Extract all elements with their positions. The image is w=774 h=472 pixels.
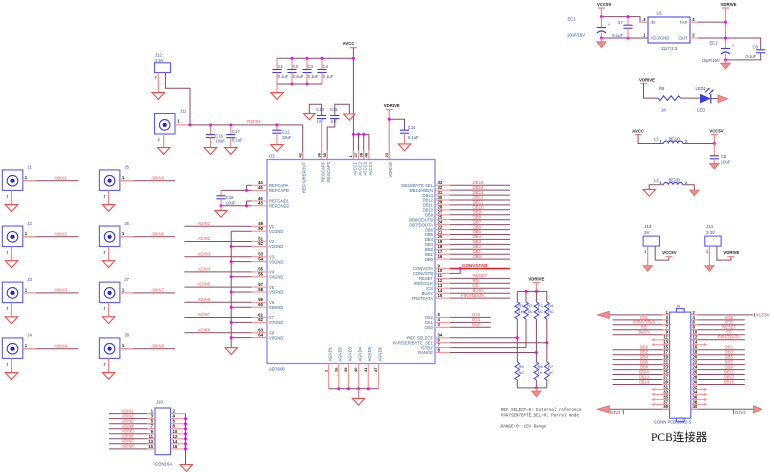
wire ADIN7 [120,292,175,294]
svg-text:EC2: EC2 [710,40,719,45]
resistor R3 [534,302,543,319]
svg-text:REFIN: REFIN [247,119,260,124]
svg-text:C5: C5 [721,154,727,159]
svg-text:VCC5V: VCC5V [662,250,676,255]
U1 pin4 stub [690,21,698,23]
wire /STBY net [450,347,526,349]
wire C14 branch [389,119,404,130]
ground DGND L2 [690,190,700,196]
svg-text:PAR/SER/BYTE_SEL=0: Parral mod: PAR/SER/BYTE_SEL=0: Parral mode [501,414,579,419]
pin 35 REGCAP2 labels [322,152,331,182]
pin 2 lead J3 [11,303,13,317]
power port VDRIVE out [721,2,737,8]
R6 bottom lead [535,380,537,388]
pin 38 AVCC3 labels [358,152,367,175]
pin 54 V3GND [252,261,268,263]
svg-text:R5: R5 [519,364,525,369]
wire VCC5V drop3 [713,135,715,144]
svg-text:47: 47 [373,367,378,372]
svg-text:42: 42 [297,152,302,157]
wire J9 pin4 OS0 [691,319,745,321]
junction top bus C2 [291,57,294,60]
resistor R7 [545,362,554,380]
pin 36 stub [321,150,323,160]
junction CONVSTAB node [459,267,462,270]
svg-text:OS0: OS0 [425,325,434,330]
svg-text:R4: R4 [548,303,554,308]
wire J9 pin25 DB10 [613,374,670,376]
svg-text:REF SELECT=0: External referen: REF SELECT=0: External reference [501,408,582,413]
pin 59 V6 [252,301,268,303]
junction C7 bottom [627,37,630,40]
J10 pin 6 stub [171,423,186,425]
BNC connector J6 [99,221,129,255]
R4 bottom lead [546,319,548,343]
svg-text:ADIN2: ADIN2 [198,236,211,241]
C2 top lead [291,58,293,69]
svg-text:AGND5: AGND5 [367,346,372,361]
pin 19 DB3 [435,243,450,245]
pin 46 REFGND1 [252,200,268,202]
wire DB15 [450,184,510,186]
J9 pin10 pin stub [691,334,698,336]
svg-text:62: 62 [258,317,263,322]
wire LED1 to DGND [711,98,719,100]
wire DB4 [450,238,510,240]
svg-text:U3: U3 [269,153,275,158]
R1 top lead [516,291,518,302]
svg-text:1uF: 1uF [316,119,324,124]
pin 1 stub J8 [120,348,133,350]
capacitor C1 [272,64,288,79]
R5 top lead [516,338,518,362]
J9 pin16 pin stub [691,349,698,351]
svg-text:54: 54 [258,256,263,261]
wire J9 pin21 DB6 [613,364,670,366]
pin 12 /RD/SCLK [435,282,450,284]
svg-text:J5: J5 [124,165,129,170]
svg-text:R3: R3 [538,303,544,308]
U1 pin2 stub [690,37,698,39]
wire ADIN6 at chip [184,301,251,303]
wire U1 gnd bus [601,37,648,39]
junction J10 gnd bus 4 [184,417,187,420]
pin 10 CONVSTB [435,272,450,274]
pin 2 lead J1 [11,190,13,204]
ground AGND J10 [180,465,192,472]
svg-text:NC: NC [538,309,544,314]
junction VGND bus node 6 [230,306,233,309]
ground AGND L2 [643,189,655,196]
wire L2 left [649,185,663,189]
pin 26 AGND2 [338,364,340,389]
C1 bottom lead [276,73,278,85]
svg-text:CONN PCB 20X2-S: CONN PCB 20X2-S [654,419,691,424]
pin 27 DB9 [435,214,450,216]
BNC connector J7 [99,277,129,311]
svg-text:REGCAP1: REGCAP1 [321,161,326,182]
capacitor C12 [272,130,292,140]
J10 pin 10 stub [171,433,186,435]
junction C18/REFGND node [220,204,223,207]
svg-text:C14: C14 [408,125,416,130]
wire ADIN6 [120,236,175,238]
junction VGND bus node 3 [230,260,233,263]
pin 2 lead J11 [163,134,165,147]
wire AVCC38 drop [363,134,365,159]
svg-text:LED1: LED1 [696,86,707,91]
svg-text:15: 15 [148,444,153,449]
svg-text:ADIN8: ADIN8 [151,343,164,348]
svg-text:ADIN1: ADIN1 [198,221,211,226]
svg-text:+: + [608,22,611,27]
wire J9 pin28 DB13 [691,379,745,381]
svg-text:C11: C11 [330,107,338,112]
wire ADIN2 to J10 [109,418,155,420]
pin 1 stub J1 [23,180,37,182]
pin 5 OS2 [435,316,450,318]
svg-text:DB14: DB14 [639,379,650,384]
junction VGND bus node 2 [230,245,233,248]
pin 3 OS0 [435,326,450,328]
BNC connector J5 [99,165,129,199]
svg-text:VCC5V: VCC5V [709,128,723,133]
pin 1 AVCC1 labels [348,155,357,176]
svg-text:V5GND: V5GND [269,290,283,295]
pin 18 DB2 [435,248,450,250]
pin 2 lead J5 [108,190,110,204]
pin 21 DB5 [435,234,450,236]
svg-text:NC: NC [548,309,554,314]
svg-text:2: 2 [7,251,9,255]
J9 pin11 pin stub [662,339,670,341]
J9 pin24 pin stub [691,369,698,371]
pin 37 AVCC2 labels [353,152,362,175]
pin 35 AGND3 [348,364,350,389]
svg-text:64: 64 [258,332,263,337]
J9 pin36 stub [691,398,706,400]
wire ADIN3 to J10 [109,423,155,425]
pin 35 stub [326,150,328,160]
C5 bottom lead [713,159,715,164]
junction C7 top [627,15,630,18]
wire RESET [450,277,510,279]
svg-text:1117-3.3: 1117-3.3 [661,46,678,51]
wire V2GND [231,245,251,247]
J10 pin 14 stub [171,443,186,445]
LED LED1 [696,86,714,112]
wire REF SELECT net [450,337,517,339]
junction J10 gnd bus 10 [184,432,187,435]
connector J9 body [670,312,691,418]
J10 pin 4 stub [171,418,186,420]
wire J9 pin1 [609,314,670,316]
J9 pin34 pin stub [691,393,698,395]
svg-text:CON16A: CON16A [155,461,172,466]
svg-text:C12: C12 [282,130,290,135]
ground AGND below chip [352,398,364,405]
wire FIRSTDATA [450,297,510,299]
ground DGND EC1 [597,42,607,48]
svg-text:ADIN6: ADIN6 [198,297,211,302]
svg-text:D3V3: D3V3 [735,410,746,415]
svg-text:10uF/16V: 10uF/16V [702,58,720,63]
svg-text:C2: C2 [293,64,299,69]
C14 lead [404,133,406,143]
svg-text:ADIN7: ADIN7 [151,288,164,293]
pin 9 CONVSTA [435,268,450,270]
pin 33 DB15/BYTE SEL [435,184,450,186]
junction AVCC bus 358.5 [357,133,360,136]
junction J10 gnd bus 16 [184,447,187,450]
svg-text:V4GND: V4GND [269,275,283,280]
svg-text:0.1uF: 0.1uF [323,74,334,79]
svg-text:ADIN5: ADIN5 [198,282,211,287]
pin 41 AGND5 [367,364,369,389]
wire C8 bottom wire [726,53,761,60]
capacitor C5 [710,154,731,165]
J9 pin33 stub [653,393,670,395]
J10 pin 9 stub [147,433,155,435]
pin 11 RESET [435,277,450,279]
svg-text:DB0: DB0 [473,254,482,259]
svg-text:2.5V: 2.5V [155,58,164,63]
R5 bottom lead [516,380,518,388]
ground AGND under J5 [102,205,114,212]
J10 pin 8 stub [171,428,186,430]
pin 61 V7 [252,317,268,319]
J9 pin3 pin stub [662,319,670,321]
svg-text:10uF: 10uF [226,200,236,205]
svg-text:PCB连接器: PCB连接器 [651,430,708,444]
svg-text:R7: R7 [548,364,554,369]
svg-text:1K: 1K [519,309,524,314]
J10 pin 1 stub [147,413,155,415]
pulldown gnd stem [535,388,537,391]
wire J9 pin39 D3V3 [609,408,670,410]
pin 60 V6GND [252,306,268,308]
wire RD [450,282,510,284]
pin 30 DB12 [435,199,450,201]
pin 4 OS1 [435,321,450,323]
svg-text:J3: J3 [27,277,32,282]
svg-text:OS0: OS0 [472,322,481,327]
wire REFGND1 net [247,200,252,202]
svg-text:ADIN3: ADIN3 [198,251,211,256]
junction VDRIVE/OUT [724,37,727,40]
wire TAP to VDRIVE [690,21,726,23]
svg-text:2: 2 [104,251,106,255]
pin 29 DB11 [435,204,450,206]
J9 pin19 pin stub [662,359,670,361]
pin 25 DB8/DOUTB [435,219,450,221]
capacitor EC2 [702,40,735,63]
svg-text:LED: LED [697,107,705,112]
connector J12 [155,63,171,73]
svg-text:26: 26 [333,367,338,372]
wire RANGE net [450,352,536,354]
wire DB5 [450,234,510,236]
svg-text:1: 1 [706,250,708,254]
junction R3/RANGE [535,351,538,354]
svg-text:0.1uF: 0.1uF [308,74,319,79]
wire ADIN1 to J10 [109,413,155,415]
wire pulldown bottom bus [517,387,547,389]
C16 lead2 [210,138,212,148]
wire DB1 [450,253,510,255]
wire R8 to LED1 [681,97,701,99]
wire C8 top wire [726,38,761,50]
svg-text:RANGE: RANGE [418,350,433,355]
regulator U1 1117-3.3 [648,17,690,43]
svg-text:2: 2 [685,181,687,185]
svg-text:0.1uF: 0.1uF [612,33,623,38]
ground AGND VGND bus [225,348,237,355]
svg-text:10uF: 10uF [721,159,731,164]
J9 pin34 stub [691,393,706,395]
pin 23 stub [388,150,390,160]
svg-text:C4: C4 [323,64,329,69]
wire V8GND [231,337,251,339]
svg-text:AGND1: AGND1 [328,346,333,361]
R7 top lead [546,343,548,362]
resistor R1 [515,302,524,319]
J9 pin1 pin stub [662,314,670,316]
R6 top lead [535,353,537,363]
J9 pin28 pin stub [691,379,698,381]
svg-text:35: 35 [343,367,348,372]
pin 45 REFCAPB [252,189,268,191]
svg-text:C8: C8 [753,44,759,49]
power port VCC5V at J13 [662,250,676,256]
wire J9 pin26 DB11 [691,374,745,376]
pin 13 /CS [435,287,450,289]
wire V6GND [231,306,251,308]
pin 2 lead J12 [157,73,159,93]
svg-text:1K: 1K [527,309,532,314]
op-amp U3 AD7606 body [267,160,435,364]
svg-text:2: 2 [104,362,106,366]
junction REFIN/C16 node [209,123,212,126]
wire DB2 [450,248,510,250]
svg-text:C17: C17 [232,129,240,134]
J9 pin36 pin stub [691,398,698,400]
C3 bottom lead [306,73,308,85]
ground AGND under J7 [102,317,114,324]
junction VDRIVE/TAP [724,21,727,24]
wire AVCC pin bus [353,133,369,135]
J9 pin14 stub [691,344,706,346]
C5 top lead [713,144,715,156]
svg-text:J7: J7 [124,277,129,282]
svg-text:16: 16 [173,444,178,449]
wire J9 pin6 OS2 [691,324,745,326]
pin 2 lead J6 [108,247,110,261]
wire J9 pin5 CONVSTAB [613,324,670,326]
J9 pin20 pin stub [691,359,698,361]
svg-text:BEAD: BEAD [669,178,680,183]
svg-text:ADIN1: ADIN1 [54,175,67,180]
J10 pin 2 stub [171,413,186,415]
wire VDRIVE drop2 [725,8,727,49]
R7 bottom lead [546,380,548,388]
pin 2 lead J7 [108,303,110,317]
junction top bus C4 [321,57,324,60]
wire J9 pin27 DB12 [613,379,670,381]
junction EC2 bottom [724,58,727,61]
wire C1-C4 bottom bus [277,83,322,85]
wire DB13 [450,194,510,196]
C17 lead2 [230,138,232,148]
svg-text:2: 2 [104,307,106,311]
svg-text:REFIN/REFOUT: REFIN/REFOUT [302,162,307,193]
svg-text:C10: C10 [316,107,324,112]
junction top bus C3 [306,57,309,60]
wire REFGND1 to REFGND2 [246,201,248,206]
capacitor C10 [316,107,326,123]
J9 pin6 pin stub [691,324,698,326]
svg-text:TAP: TAP [679,20,687,25]
resistor R4 [545,302,554,319]
EC2 gnd stem [725,60,727,63]
pin 20 DB4 [435,238,450,240]
J13 pin1 lead [647,246,649,266]
wire REFCAPA to REFCAPB [246,185,248,190]
J14 pin1 lead [708,246,710,266]
svg-text:60: 60 [258,302,263,307]
junction VGND bus node 4 [230,275,233,278]
wire ADIN4 to J10 [109,428,155,430]
J9 pin2 pin stub [691,314,698,316]
wire DB6 [450,229,510,231]
svg-text:43: 43 [258,201,263,206]
svg-text:1: 1 [660,181,662,185]
svg-text:1uF: 1uF [330,119,338,124]
pin 44 REFCAPA [252,184,268,186]
wire REFIN [175,124,303,126]
ground AGND under J3 [5,317,17,324]
ground DGND C5 [710,163,720,169]
svg-text:5V: 5V [644,230,649,235]
wire CONVSTB tie [450,269,460,274]
svg-text:40: 40 [693,404,698,409]
wire DB11 [450,204,510,206]
wire BUSY [450,292,510,294]
junction VGND bus node 8 [230,336,233,339]
resistor R5 [515,362,524,380]
wire AVCC vertical [352,48,354,135]
wire J12 pin1 to REFIN node [165,73,190,125]
svg-text:D3V3: D3V3 [610,410,621,415]
J10 pin 5 stub [147,423,155,425]
wire AVCC48 drop [368,134,370,159]
ground DGND EC2 [721,63,731,69]
svg-text:C7: C7 [618,20,624,25]
wire PAR/SER/BYTE_SEL net [450,342,547,344]
capacitor C3 [302,64,318,79]
resistor R8 [658,86,681,113]
svg-text:0.1uF: 0.1uF [408,135,419,140]
pin 22 DB6 [435,229,450,231]
R1 bottom lead [516,319,518,338]
J9 pin14 pin stub [691,344,698,346]
svg-text:CONVSTAB: CONVSTAB [462,263,488,268]
junction VGND bus node 5 [230,291,233,294]
wire OUT to VDRIVE [690,37,726,39]
junction top bus R3 [535,290,538,293]
AVCC pin 37 stub [358,150,360,160]
pin 42 REFIN/REFOUT labels [297,152,306,193]
